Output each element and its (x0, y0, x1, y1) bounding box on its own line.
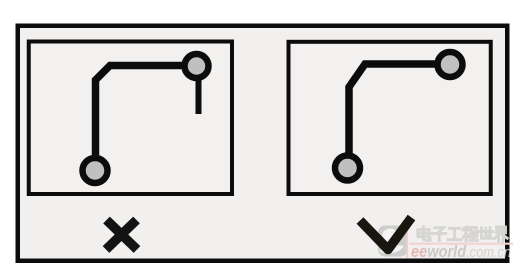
watermark chinese title strokes (418, 227, 508, 241)
char jie (495, 227, 508, 241)
check mark (right) (360, 218, 412, 250)
right panel (good example) (289, 42, 491, 194)
char gong (448, 228, 461, 239)
char shi (478, 228, 492, 239)
pad P4 top-right (right panel) (438, 52, 463, 77)
char zi (432, 228, 446, 241)
pad P3 bottom-left (right panel) (335, 156, 360, 181)
wire left trace (96, 66, 194, 171)
watermark pink divider line (406, 227, 408, 259)
wire right trace (349, 64, 450, 168)
char dian (418, 227, 430, 241)
svg-text:eeworld.com.cn: eeworld.com.cn (411, 243, 511, 261)
X mark (wrong) (106, 220, 137, 250)
watermark pink underline (409, 243, 513, 245)
char cheng (463, 227, 477, 241)
pad P2 top-right (left panel) (185, 54, 209, 78)
watermark logo square (378, 226, 408, 257)
left panel (bad example) (29, 42, 232, 195)
pad P1 bottom-left (left panel) (83, 158, 108, 183)
wire stub on left top pad (196, 78, 202, 114)
